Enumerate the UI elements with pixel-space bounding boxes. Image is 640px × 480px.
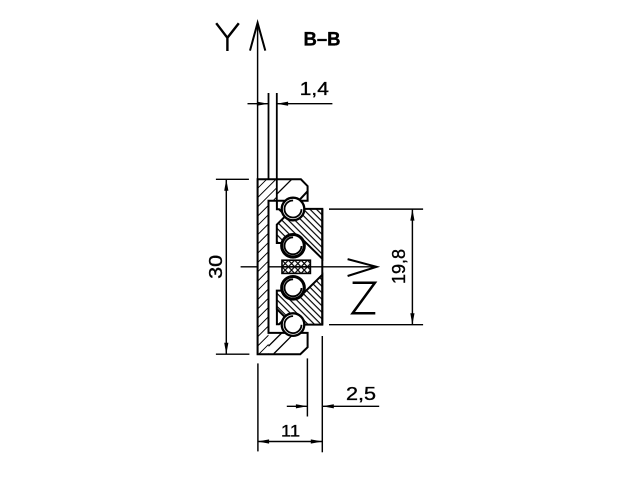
ball bearing 3 — [282, 277, 305, 300]
svg-text:1,4: 1,4 — [300, 79, 329, 99]
svg-text:2,5: 2,5 — [346, 384, 376, 404]
svg-text:30: 30 — [206, 255, 226, 279]
dimension 1,4 — [248, 79, 333, 106]
outer rail web hatched area — [258, 179, 277, 354]
axis label Z — [353, 283, 376, 314]
Y axis centerline — [257, 23, 259, 354]
Z axis centerline — [241, 266, 377, 268]
svg-text:11: 11 — [281, 421, 300, 440]
ball bearing 1 — [282, 198, 305, 221]
dimension 30 — [206, 179, 249, 354]
Z axis arrowhead — [348, 259, 377, 276]
flange hatch lines bottom — [269, 333, 282, 346]
ball cage block (crosshatched) — [282, 260, 310, 273]
inner rail upper prong (hatched) — [277, 209, 323, 259]
dimension 19,8 — [329, 209, 423, 325]
dimension 2,5 — [287, 358, 379, 416]
svg-text:B–B: B–B — [304, 30, 341, 51]
dimension 11 — [258, 336, 323, 452]
inner rail right edge — [321, 209, 323, 325]
inner rail lower prong (hatched) — [277, 275, 323, 325]
ball bearing 4 — [282, 313, 305, 336]
axis label Y — [216, 23, 239, 51]
mounting plate lines (1.4 thick) — [268, 93, 270, 179]
Y axis arrowhead — [250, 23, 265, 51]
inner rail top tab — [277, 201, 285, 215]
inner rail bottom tab — [277, 309, 285, 324]
ball bearing 2 — [282, 235, 305, 258]
flange hatch line top — [277, 179, 292, 194]
svg-text:19,8: 19,8 — [389, 249, 409, 284]
outer rail top raceway edge — [300, 191, 308, 199]
outer rail outline — [258, 179, 308, 354]
